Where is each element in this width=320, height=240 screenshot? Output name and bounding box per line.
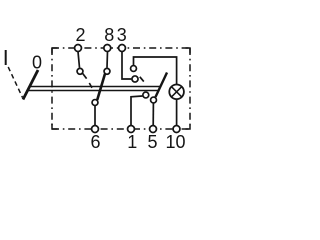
terminal 2 — [75, 45, 82, 52]
wire lamp to terminal 10 — [176, 100, 178, 126]
wire pivot to terminal 6 — [94, 106, 96, 125]
wire terminal 8 to contact — [106, 52, 109, 68]
hand lever — [23, 70, 38, 100]
svg-text:6: 6 — [90, 132, 100, 152]
terminal 6 — [92, 126, 99, 133]
contact circle pole lamp left — [143, 92, 149, 98]
lamp feed contact circle — [131, 66, 137, 72]
terminal 3 — [119, 45, 126, 52]
lamp pole lever (thick) — [156, 73, 168, 98]
contact circle pole lamp right — [151, 97, 157, 103]
contact lever stub pole 3 — [140, 77, 144, 82]
indicator lamp — [169, 85, 184, 100]
svg-text:3: 3 — [117, 25, 127, 45]
svg-text:5: 5 — [147, 132, 157, 152]
svg-text:8: 8 — [104, 25, 114, 45]
contact circle on terminal 3 branch — [132, 76, 138, 82]
mechanical coupling bar bottom line — [28, 90, 158, 92]
pivot contact circle above terminal 6 — [92, 100, 98, 106]
svg-text:10: 10 — [165, 132, 185, 152]
wire terminal 2 to contact — [78, 52, 80, 68]
wire terminal 5 up to contact — [152, 103, 154, 125]
terminal 5 — [150, 126, 157, 133]
lever alternate position dashed line — [8, 67, 22, 98]
wire terminal 3 down and right — [122, 52, 131, 80]
mechanical coupling bar top line — [30, 86, 160, 88]
svg-text:2: 2 — [75, 25, 85, 45]
contact circle under terminal 2 — [77, 68, 83, 74]
enclosure dash-dot border — [52, 48, 190, 129]
label I (lever position I) — [5, 50, 7, 65]
wire lamp feed contact up and right to lamp — [134, 57, 177, 84]
terminal 10 — [173, 126, 180, 133]
terminal 8 — [104, 45, 111, 52]
border corner arms — [52, 48, 190, 129]
coupling tick pole 2 — [89, 83, 92, 88]
terminal 1 — [128, 126, 135, 133]
contact lever stub pole 2 — [83, 73, 87, 78]
contact circle under terminal 8 — [104, 68, 110, 74]
switch blade 8-6 (thick lever) — [97, 74, 105, 100]
svg-text:1: 1 — [127, 132, 137, 152]
wire terminal 1 up and right to contact — [131, 96, 142, 125]
